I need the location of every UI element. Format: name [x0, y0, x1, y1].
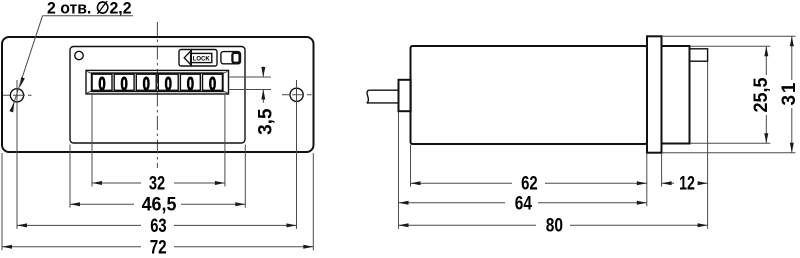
LOCK arrow outline	[184, 50, 191, 65]
svg-text:LOCK: LOCK	[193, 55, 210, 62]
shaft top line	[369, 89, 399, 91]
dim 12 line	[662, 182, 674, 184]
svg-text:63: 63	[150, 216, 166, 237]
dim 80 line	[399, 224, 537, 226]
svg-text:0: 0	[98, 74, 105, 95]
svg-text:25,5: 25,5	[751, 77, 772, 112]
svg-text:0: 0	[187, 74, 194, 95]
dim 62 extension lines	[410, 145, 412, 187]
leader arrow lower	[9, 102, 16, 113]
left mounting hole	[10, 89, 23, 102]
svg-text:32: 32	[149, 173, 165, 194]
dim 25,5 extension lines	[690, 45, 770, 47]
dim 64 line	[399, 202, 506, 204]
leader slant line	[12, 16, 43, 110]
svg-text:3,5: 3,5	[256, 108, 277, 135]
leader shelf line	[43, 15, 134, 17]
svg-text:46,5: 46,5	[142, 195, 177, 216]
left hole horizontal centerline	[3, 94, 32, 96]
svg-text:0: 0	[209, 74, 216, 95]
svg-text:2 отв. ∅2,2: 2 отв. ∅2,2	[47, 0, 132, 18]
leader arrow upper	[18, 77, 25, 88]
shaft break squiggle	[367, 90, 369, 103]
LOCK badge frame	[179, 50, 217, 67]
dim 3,5 line	[262, 67, 264, 78]
dim 46,5 line	[70, 203, 134, 205]
digit wheel 2	[114, 74, 134, 90]
dim 31 line	[791, 36, 793, 80]
dim 64 extension line	[398, 112, 400, 229]
dim 72 extension lines	[1, 153, 3, 250]
digit wheel 5	[180, 74, 200, 90]
digit wheel 3	[136, 74, 156, 90]
dim 63 line	[17, 224, 141, 226]
counter outer frame	[86, 70, 229, 94]
reset button slider	[232, 53, 239, 63]
svg-text:31: 31	[779, 82, 800, 105]
svg-text:62: 62	[521, 173, 538, 194]
shaft bottom line	[367, 102, 399, 104]
digit wheel 6	[203, 74, 223, 90]
counter inner window	[92, 73, 224, 92]
dim 3,5 arrows	[261, 67, 265, 77]
svg-text:0: 0	[165, 74, 172, 95]
svg-text:64: 64	[515, 193, 533, 214]
dim 32 extension lines	[91, 95, 93, 187]
plate outline	[2, 37, 314, 152]
svg-text:0: 0	[143, 74, 150, 95]
digit wheel 1	[92, 74, 112, 90]
dim 72 line	[2, 246, 141, 248]
LOCK label box	[191, 53, 212, 62]
reset button frame	[221, 52, 241, 64]
svg-text:0: 0	[120, 74, 127, 95]
rear connector	[690, 49, 708, 61]
dim 31 extension lines	[662, 35, 796, 37]
mounting flange	[647, 36, 662, 152]
dim 12 extension line left	[661, 153, 663, 187]
shaft collar	[399, 80, 411, 111]
digit wheel 4	[158, 74, 178, 90]
dim 25,5 line	[765, 46, 767, 75]
dim 80 extension line right	[707, 62, 709, 229]
panel screw circle	[75, 51, 83, 59]
svg-text:12: 12	[679, 173, 695, 194]
counter body	[411, 46, 648, 144]
plate vertical centerline	[156, 22, 158, 168]
left hole vertical centerline / 63 extension	[16, 80, 18, 229]
dim 46,5 extension lines	[69, 145, 71, 208]
svg-text:80: 80	[546, 216, 563, 237]
svg-text:72: 72	[150, 237, 167, 258]
right mounting hole	[290, 88, 303, 101]
right hole vertical centerline / 63 extension	[296, 80, 298, 229]
right hole horizontal centerline	[282, 94, 312, 96]
dim 62 line	[411, 182, 513, 184]
inner panel outline	[70, 47, 245, 144]
dim 32 line	[92, 182, 141, 184]
rear block	[662, 46, 690, 144]
counter bevel corners	[87, 71, 228, 93]
dim 3,5 extension lines	[230, 76, 272, 78]
